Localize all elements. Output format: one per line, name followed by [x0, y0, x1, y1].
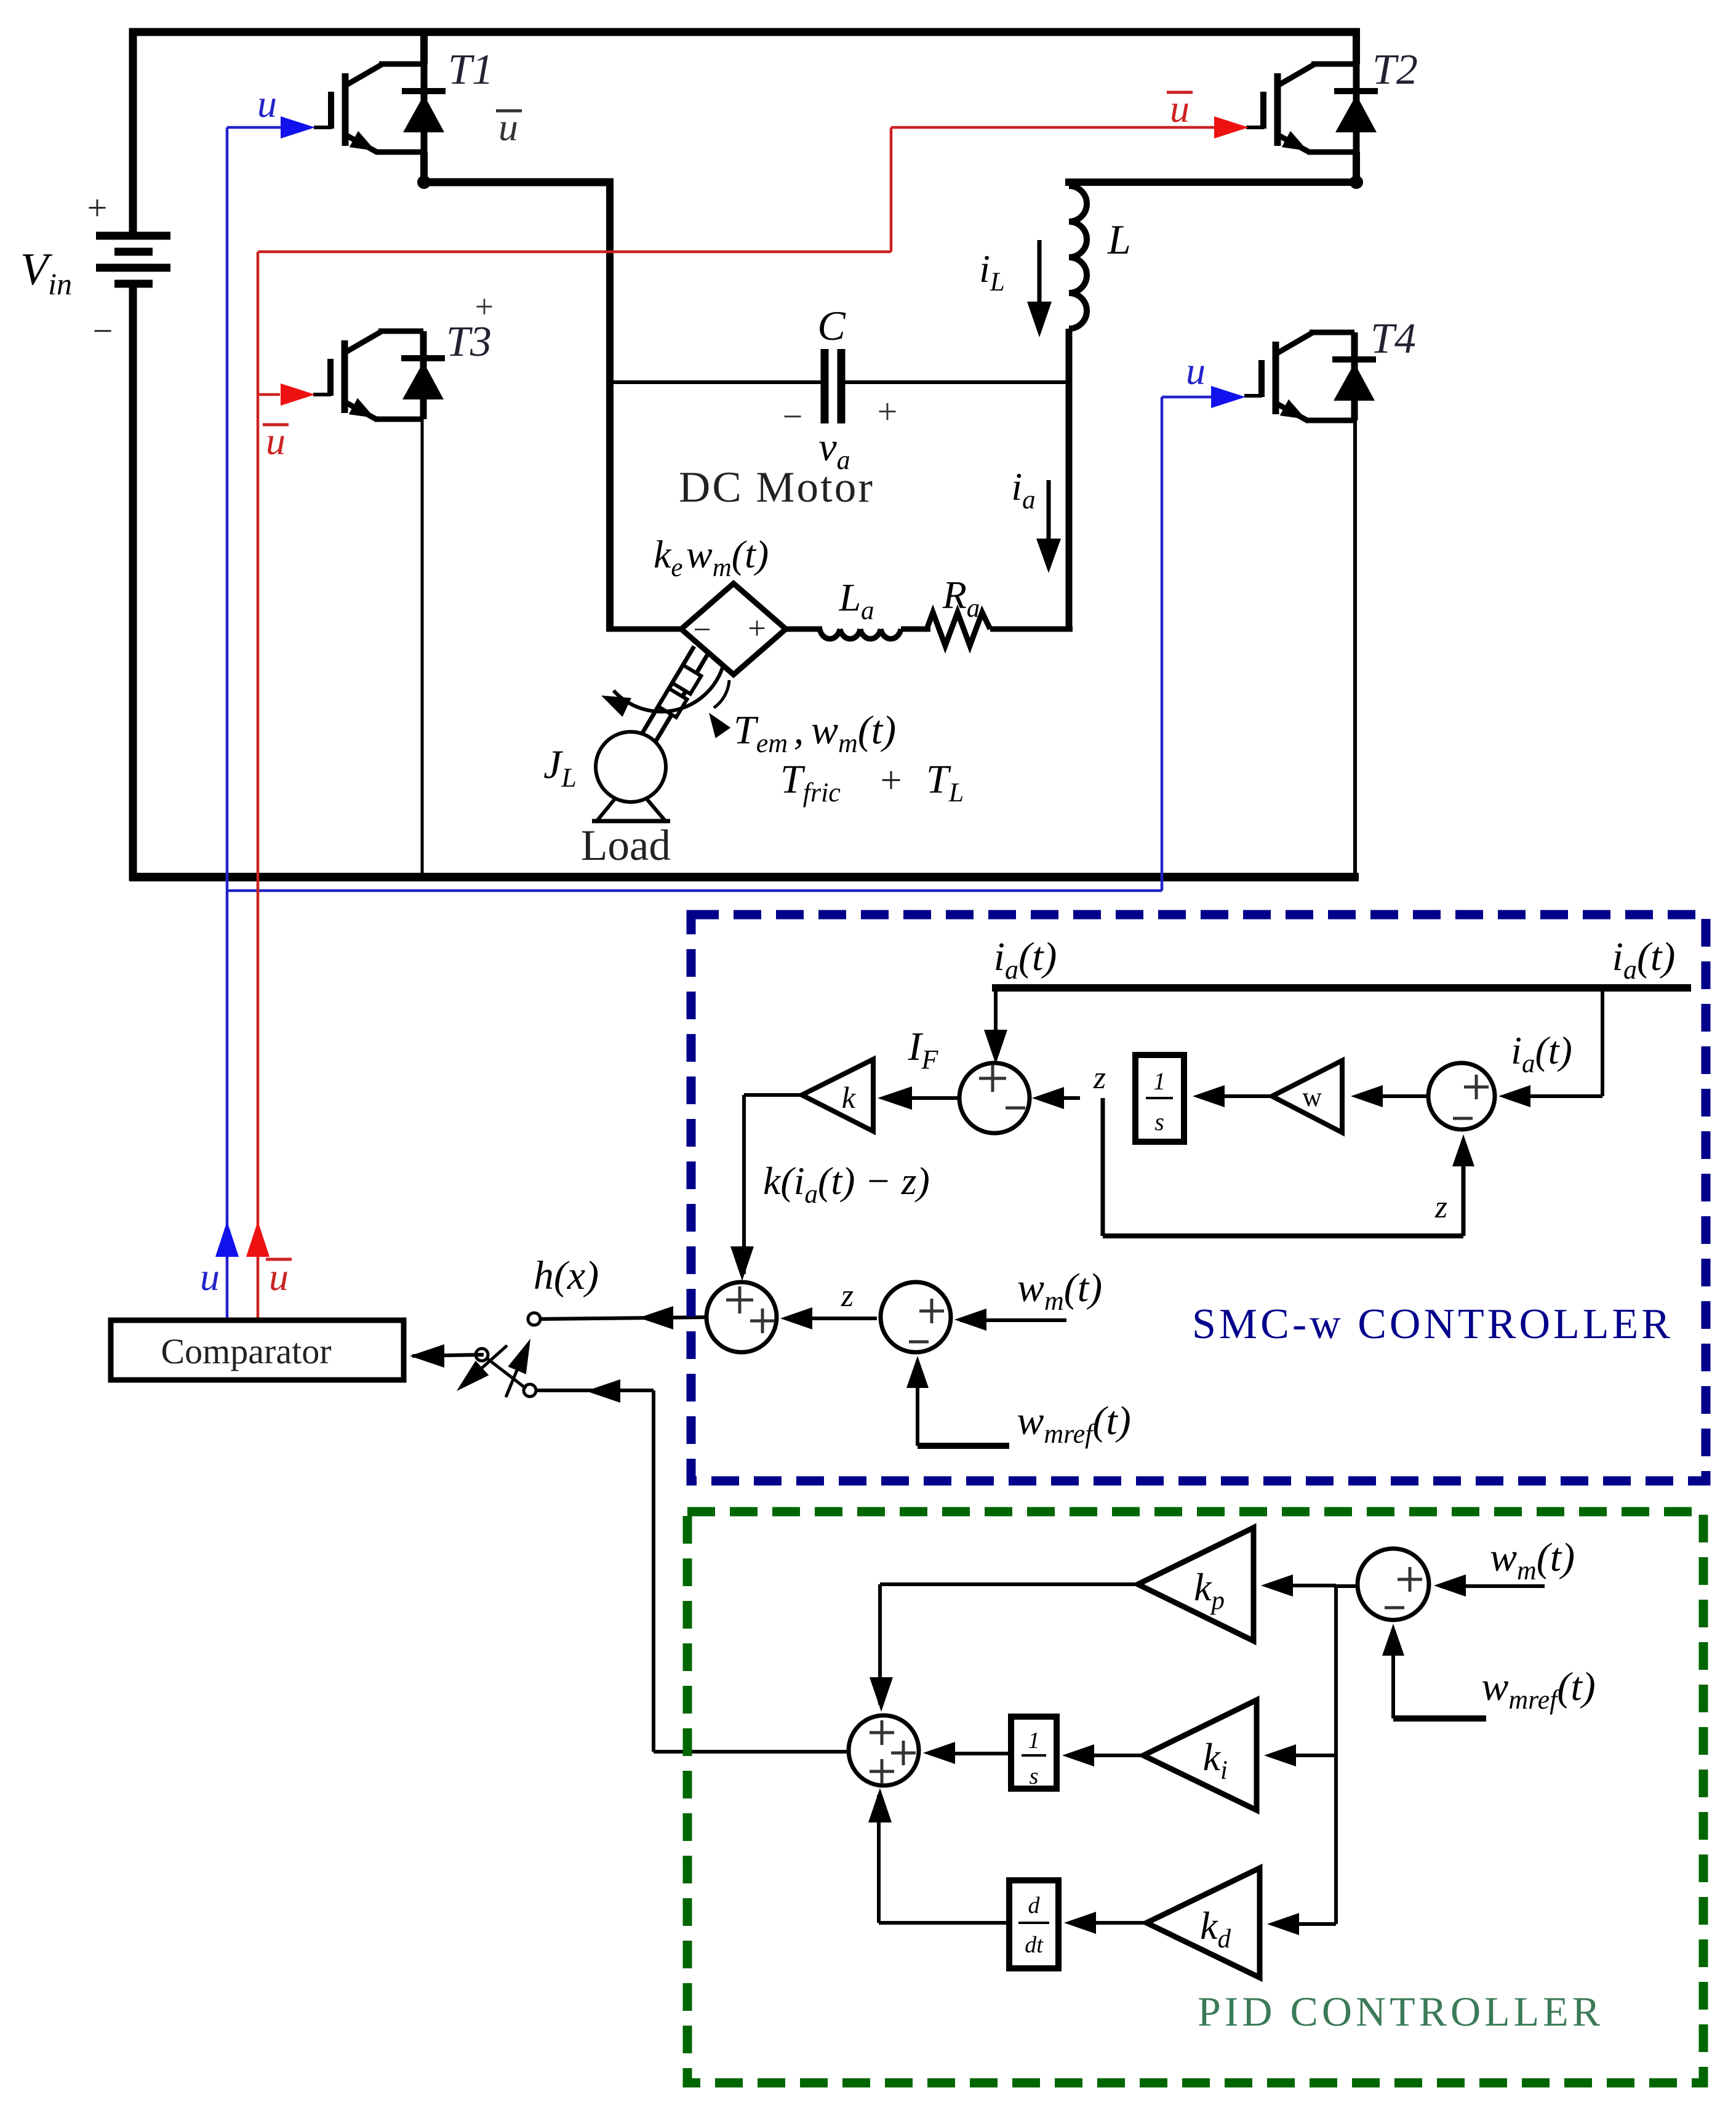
label IF: [908, 1024, 939, 1075]
wire u (blue) horizontal under box: [227, 889, 1162, 892]
arrow into comparator: [410, 1344, 484, 1368]
label DC Motor: [679, 463, 874, 511]
label T4: [1370, 315, 1416, 363]
svg-text:T3: T3: [446, 318, 492, 366]
wire u-bar (red) vertical to comparator: [257, 252, 260, 1320]
inductor La: [820, 629, 901, 639]
svg-text:+: +: [475, 288, 494, 325]
wire u-bar (red) horizontal to T2 gate: [891, 116, 1249, 138]
transistor T4: [1244, 332, 1376, 421]
svg-text:z: z: [841, 1278, 854, 1313]
inductor L: [1069, 186, 1087, 329]
svg-text:s: s: [1030, 1763, 1039, 1789]
wire z branch down: [1103, 1098, 1474, 1236]
wire left rail (battery top lead): [129, 28, 137, 236]
wire node A to motor-left corner: [420, 178, 614, 186]
switch blade arrows: [457, 1339, 530, 1397]
label Comparator: [161, 1331, 331, 1371]
integrator 1/s box: [1135, 1055, 1184, 1142]
svg-text:u: u: [1186, 349, 1206, 393]
svg-text:T1: T1: [448, 46, 494, 94]
label C: [817, 302, 846, 349]
label L: [1107, 216, 1131, 263]
label Tem, wm(t): [734, 708, 896, 758]
svg-text:C: C: [817, 302, 846, 349]
wire u (blue) lead into T4 gate: [1162, 386, 1246, 408]
resistor Ra: [927, 612, 990, 646]
back-EMF source ke*wm(t) (diamond): [681, 583, 786, 675]
gain ki (triangle): [1143, 1700, 1257, 1810]
label k(ia(t)-z): [763, 1159, 930, 1209]
wire left rail (battery bottom lead): [129, 284, 137, 881]
motor shaft with coupling: [641, 646, 708, 743]
gain kp (triangle): [1138, 1528, 1254, 1641]
summing junction S3: [1428, 1063, 1495, 1129]
wire u (blue) horizontal to T1 gate: [227, 116, 315, 138]
svg-text:Comparator: Comparator: [161, 1331, 331, 1371]
svg-text:k: k: [842, 1080, 856, 1115]
wire wm(t) into S7: [1434, 1574, 1545, 1597]
wire 1/s to S6: [923, 1742, 1011, 1764]
wire kd to differentiator: [1064, 1912, 1146, 1934]
svg-text:u: u: [257, 82, 277, 126]
label u-bar at T3 gate: [263, 419, 289, 463]
label T1: [448, 46, 494, 94]
label wm(t) SMC: [1017, 1265, 1102, 1316]
wire S5 to S4 (z): [780, 1307, 877, 1329]
transistor T3: [313, 331, 445, 420]
wire d/dt output to S6: [868, 1788, 1009, 1923]
label h(x): [534, 1253, 599, 1298]
battery Vin: [87, 188, 170, 351]
PID controller dashed box: [687, 1512, 1703, 2083]
gain W (triangle): [1272, 1060, 1342, 1133]
wire S7 output trunk: [1336, 1586, 1358, 1924]
wire u-bar (red) vertical up: [890, 127, 893, 252]
wire bottom rail: [129, 873, 1359, 881]
arrow ia (armature current): [1036, 480, 1061, 573]
label u at T4 gate: [1186, 349, 1206, 393]
wire T4 emitter down to bottom rail: [1353, 420, 1357, 877]
svg-text:s: s: [1154, 1108, 1164, 1136]
label Load: [581, 822, 671, 870]
svg-text:ia(t): ia(t): [994, 934, 1057, 985]
wire wmref into S5: [906, 1356, 1009, 1446]
svg-text:,: ,: [794, 708, 804, 753]
svg-text:+: +: [881, 760, 902, 801]
svg-text:z: z: [1093, 1060, 1106, 1096]
svg-text:+: +: [878, 391, 898, 431]
svg-text:−: −: [783, 396, 803, 436]
summing junction S1: [959, 1063, 1030, 1133]
arrow rotation wm (arc with arrowhead): [601, 664, 724, 717]
summing junction S5: [881, 1282, 951, 1352]
summing junction S4: [0, 0, 777, 1352]
svg-text:h(x): h(x): [534, 1253, 599, 1298]
svg-text:SMC-w CONTROLLER: SMC-w CONTROLLER: [1192, 1301, 1673, 1348]
wire diamond to La: [786, 627, 822, 632]
wire ki to integrator: [1062, 1744, 1143, 1766]
wire Ra to motor right vertical: [990, 627, 1073, 632]
wire La to Ra: [901, 627, 930, 632]
transistor T1: [314, 64, 446, 153]
label u-bar above comparator: [266, 1255, 292, 1299]
wire T2 collector (top rail to T2): [1353, 28, 1360, 64]
differentiator d/dt box: [1009, 1880, 1058, 1968]
svg-text:T2: T2: [1372, 46, 1418, 94]
arrow Tem (small arc arrowhead): [709, 680, 730, 738]
svg-text:ia(t): ia(t): [1612, 934, 1676, 985]
wire T1 emitter to node A: [420, 152, 428, 186]
gain k (triangle): [802, 1059, 873, 1131]
svg-text:d: d: [1028, 1893, 1041, 1919]
label SMC-w CONTROLLER: [1192, 1301, 1673, 1348]
wire u (blue) vertical to T4 gate: [1161, 397, 1164, 891]
label ia(t) inner: [1511, 1028, 1572, 1078]
wire S1 output IF: [878, 1086, 959, 1110]
svg-text:PID CONTROLLER: PID CONTROLLER: [1198, 1988, 1604, 2035]
wire motor bottom left: [606, 627, 684, 632]
wire h(x) from SMC to switch: [540, 1306, 708, 1329]
label va: [818, 425, 850, 475]
label Ra: [942, 573, 980, 623]
wire trunk to kd: [1267, 1913, 1336, 1935]
wire trunk to ki: [1264, 1744, 1336, 1766]
svg-text:DC Motor: DC Motor: [679, 463, 874, 511]
wire ia(t) top line: [992, 984, 1691, 992]
svg-text:+: +: [87, 188, 108, 228]
label PID CONTROLLER: [1198, 1988, 1604, 2035]
wire trunk to kp: [1261, 1574, 1336, 1597]
wire u-bar (red) lead into T3 gate: [258, 383, 315, 406]
wire ia(t) drop to summer S1: [984, 988, 1007, 1064]
label Vin: [20, 244, 72, 301]
wire T1 collector (top rail to T1): [420, 28, 428, 64]
svg-text:w: w: [1302, 1082, 1322, 1112]
svg-text:−: −: [693, 612, 711, 648]
capacitor C: [825, 349, 841, 423]
svg-text:z: z: [1434, 1190, 1447, 1225]
svg-text:ia(t): ia(t): [1511, 1028, 1572, 1078]
wire PID output to switch: [536, 1379, 850, 1752]
wire capacitor right: [845, 380, 1069, 384]
svg-text:dt: dt: [1025, 1932, 1044, 1958]
integrator 1/s box PID: [1011, 1717, 1057, 1789]
label z lower: [1434, 1190, 1447, 1225]
wire u (blue) vertical to comparator: [226, 127, 229, 1320]
label u-bar at T1 (gate of T2 net): [496, 105, 522, 149]
wire T3 emitter down to bottom rail: [421, 419, 424, 877]
label wmref(t) PID: [1481, 1664, 1595, 1715]
label La: [838, 575, 874, 625]
svg-text:k(ia(t) − z): k(ia(t) − z): [763, 1159, 930, 1209]
svg-text:u: u: [200, 1255, 220, 1299]
label va polarity: [783, 391, 898, 436]
wire T2 emitter to node B: [1353, 152, 1360, 186]
arrow u into comparator (direction arrowhead): [215, 1221, 239, 1257]
label iL: [979, 247, 1005, 297]
switch pole contact: [476, 1349, 488, 1361]
svg-text:1: 1: [1153, 1067, 1166, 1095]
SMC-w controller dashed box: [691, 915, 1706, 1481]
label wm(t) PID: [1490, 1535, 1575, 1586]
label T2: [1372, 46, 1418, 94]
wire node B to inductor top: [1065, 178, 1360, 186]
label Tfric + TL: [780, 757, 964, 808]
label wmref(t) SMC: [1017, 1398, 1130, 1449]
load inertia JL (circle): [596, 732, 666, 802]
wire top rail: [129, 28, 1360, 36]
label T3: [446, 318, 492, 366]
arrow iL (inductor current): [1027, 240, 1052, 337]
svg-text:L: L: [1107, 216, 1131, 263]
wire z into S1: [1032, 1087, 1080, 1109]
switch throw contact PID: [524, 1384, 536, 1397]
svg-text:1: 1: [1028, 1728, 1040, 1754]
switch throw contact h(x): [528, 1313, 540, 1325]
wire k output down: [730, 1095, 802, 1281]
svg-text:Load: Load: [581, 822, 671, 870]
svg-text:T4: T4: [1370, 315, 1416, 363]
node A (phase a): [417, 175, 431, 189]
label u above comparator: [200, 1255, 220, 1299]
wire ia into S3: [1498, 988, 1602, 1107]
label z mid: [841, 1278, 854, 1313]
wire motor left vertical: [606, 178, 614, 629]
node B (phase b): [1350, 175, 1363, 189]
load stand: [592, 798, 670, 822]
summing junction S6: [849, 1715, 919, 1786]
label ia(t) top-right: [1612, 934, 1676, 985]
label JL: [543, 742, 577, 793]
label u-bar at T2 gate: [1167, 87, 1193, 130]
comparator box: [111, 1320, 404, 1380]
summing junction S7: [1358, 1549, 1429, 1620]
wire W to 1/s: [1193, 1085, 1272, 1107]
wire kp output to S6: [870, 1584, 1138, 1712]
arrow u-bar into comparator (direction arrowhead): [246, 1221, 270, 1257]
svg-text:−: −: [93, 311, 113, 351]
label z upper: [1093, 1060, 1106, 1096]
label ia: [1011, 465, 1035, 515]
label ke wm(t): [654, 532, 769, 582]
svg-text:+: +: [748, 611, 766, 646]
wire capacitor left: [610, 380, 821, 384]
label ia(t) top-left: [994, 934, 1057, 985]
gain kd (triangle): [1146, 1868, 1260, 1978]
wire inductor bottom to motor right vertical: [1066, 329, 1073, 631]
wire u-bar (red) horizontal mid: [258, 251, 891, 254]
label + above T3: [475, 288, 494, 325]
label u at T1 gate: [257, 82, 277, 126]
svg-text:u: u: [269, 1255, 289, 1299]
wire wmref into S7: [1382, 1624, 1486, 1718]
wire wm(t) into S5: [954, 1309, 1066, 1331]
transistor T2: [1246, 64, 1378, 153]
wire S3 to W: [1351, 1085, 1428, 1107]
